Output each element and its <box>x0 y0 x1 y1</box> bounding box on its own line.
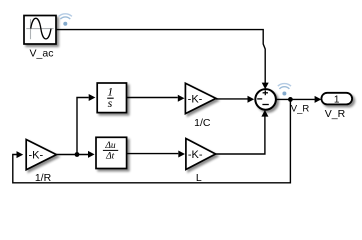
svg-text:V_R: V_R <box>325 108 346 120</box>
svg-text:V_ac: V_ac <box>30 48 54 60</box>
svg-text:1/R: 1/R <box>35 172 52 184</box>
svg-text:-K-: -K- <box>28 149 43 161</box>
svg-text:V_R: V_R <box>291 104 310 115</box>
svg-text:Δt: Δt <box>105 151 115 161</box>
svg-text:L: L <box>196 172 202 184</box>
svg-text:1: 1 <box>334 94 340 105</box>
svg-text:1/C: 1/C <box>194 117 211 129</box>
svg-text:s: s <box>108 96 113 110</box>
svg-text:-K-: -K- <box>188 149 203 161</box>
svg-text:Δu: Δu <box>104 141 116 151</box>
svg-text:-K-: -K- <box>188 94 203 106</box>
